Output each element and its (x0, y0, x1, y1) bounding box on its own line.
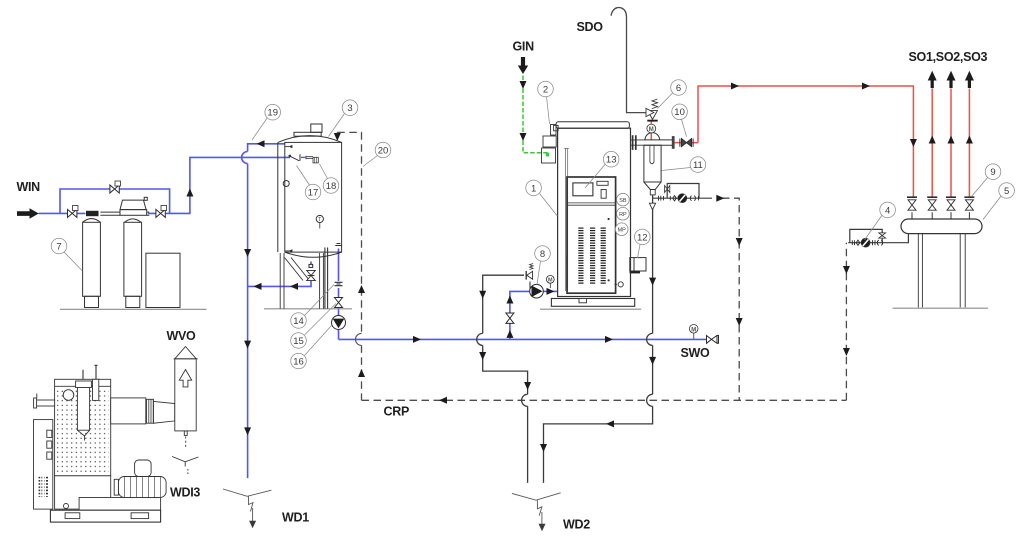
wire tank blowoff drain blue (248, 262, 311, 287)
wire tank overflow to WD1 blue (242, 144, 285, 478)
arrow left tank overflow (257, 140, 265, 147)
skid base platform (79, 498, 161, 511)
steam trap manifold (861, 238, 870, 247)
feedwater tank internal inlet bracket (285, 145, 292, 148)
steam trap separator (678, 194, 687, 203)
boiler panel buttons (597, 181, 608, 198)
skid dosing filter column (76, 381, 92, 441)
boiler display (573, 183, 593, 196)
arrow right feed line 1 (413, 336, 421, 343)
wire pump suction branch blue (510, 291, 531, 339)
arrow up softener outlet riser (186, 189, 193, 197)
valve WIN line (68, 206, 79, 218)
svg-text:SB: SB (619, 198, 627, 204)
arrow left tank blowoff 1 (254, 283, 262, 290)
manifold legs (918, 234, 965, 308)
callout 3 feed tank (329, 100, 358, 137)
arrow up SO3 (966, 136, 973, 144)
callout 17 float switch (297, 166, 321, 200)
boiler louver vents (578, 228, 606, 286)
arrow right steam header 2 (862, 83, 870, 90)
callout 12 blowdown valve (635, 229, 651, 258)
arrow right separator trap outlet (716, 195, 724, 202)
separator drain open arrow (649, 203, 655, 210)
callout 15 outlet valve (291, 304, 336, 349)
callout 6 safety valve (658, 80, 687, 109)
callout 1 boiler (526, 180, 558, 216)
feedwater tank temperature gauge T (316, 215, 323, 228)
wire CRP return into tank dashed (337, 132, 361, 400)
arrow down CRP manifold riser 2 (843, 348, 850, 356)
skid drain port (64, 504, 69, 509)
ground line under manifold (893, 307, 988, 309)
wire manifold trap line black (848, 234, 908, 243)
arrow up pump branch 2 (506, 330, 513, 338)
skid perforated panel (55, 379, 111, 476)
boiler panel seam (567, 203, 616, 205)
callout 16 strainer (291, 326, 332, 369)
arrow right feed line 2 (605, 336, 613, 343)
skid pressure gauge (63, 390, 74, 401)
valve softener outlet (156, 206, 167, 218)
arrow bold GIN inlet (518, 57, 528, 74)
svg-text:5: 5 (1004, 186, 1009, 197)
water softener interconnecting pipe (100, 212, 120, 215)
boiler drain cock (615, 282, 624, 287)
svg-text:MP: MP (618, 227, 627, 233)
svg-text:1: 1 (531, 183, 536, 194)
svg-text:WD1: WD1 (282, 511, 309, 525)
wire CRP main horizontal dashed (362, 399, 847, 401)
steam separator item 11 (644, 133, 675, 195)
arrow down CRP sep trap riser 2 (736, 318, 743, 326)
union fitting item 14 (335, 282, 343, 285)
arrow right pump discharge (547, 288, 555, 295)
WD2 floor drain (512, 493, 561, 532)
svg-text:WDI3: WDI3 (170, 486, 200, 500)
blowdown valve item 12 (630, 258, 646, 274)
boiler top plate (556, 122, 629, 129)
boiler port label SB (617, 193, 630, 206)
svg-text:14: 14 (293, 316, 304, 327)
SDO vent pipe (611, 7, 646, 112)
water softener tank 2 (124, 219, 142, 308)
arrow bold SO1 (928, 71, 937, 88)
callout 10 steam valve (672, 104, 688, 137)
wire steam supply to manifold red (675, 86, 914, 198)
feedwater tank overflow standpipe (325, 248, 328, 309)
valve steam outlet item 10 (680, 139, 693, 147)
valve SWO outlet (707, 336, 719, 344)
svg-text:RP: RP (619, 212, 627, 218)
feedwater tank body (278, 136, 342, 258)
wire softener bypass blue (60, 189, 170, 213)
valve manifold outlet 3 (946, 197, 956, 210)
pump relief valve (526, 263, 533, 279)
gas train item 2 (542, 125, 557, 164)
WDI3 floor drain (172, 457, 198, 475)
wire manifold trap bypass black (850, 229, 882, 242)
callout 20 condensate return (363, 142, 391, 166)
callout 19 overflow (252, 104, 281, 140)
svg-text:9: 9 (990, 167, 995, 178)
wire relief valve stem black (529, 282, 531, 292)
svg-text:18: 18 (326, 181, 337, 192)
valve manifold outlet 2 (927, 197, 937, 210)
water softener brine tank (146, 253, 180, 307)
arrow up CRP left riser 1 (358, 285, 365, 293)
valve tank outlet item 15 (335, 298, 343, 308)
wire steam outlets SO1 SO2 SO3 red (932, 89, 969, 199)
svg-text:20: 20 (378, 145, 389, 156)
boiler panel screws (608, 218, 610, 282)
wire CRP from manifold trap dashed (845, 243, 847, 401)
svg-text:12: 12 (637, 232, 648, 243)
svg-text:10: 10 (674, 107, 685, 118)
arrow down separator drain 1 (649, 278, 656, 286)
wire separator drain to WD2 black (544, 195, 653, 483)
wire softener outlet to feed tank blue (148, 157, 290, 213)
callout 2 gas train (538, 81, 554, 124)
svg-text:M: M (548, 278, 553, 284)
svg-text:4: 4 (885, 205, 890, 216)
svg-text:WVO: WVO (167, 329, 197, 343)
ground line under boiler (540, 308, 641, 310)
svg-text:8: 8 (540, 249, 545, 260)
WVO exhaust stack (174, 347, 198, 449)
arrow down WD1 line 2 (244, 341, 251, 349)
boiler port label RP (617, 207, 630, 220)
valve manifold trap bypass (879, 233, 886, 238)
skid lower cabinet (55, 476, 111, 509)
ground line under feed tank (264, 308, 352, 310)
svg-text:CRP: CRP (384, 405, 410, 419)
arrow up CRP left riser 2 (358, 369, 365, 377)
valve separator trap bypass (665, 186, 670, 193)
wire steam takeoff red (650, 122, 652, 140)
skid side pipe arm (34, 394, 55, 409)
strainer item 16 (332, 316, 346, 330)
svg-text:SDO: SDO (577, 20, 604, 34)
feedwater tank outlet nub (335, 244, 341, 246)
svg-text:3: 3 (347, 103, 352, 114)
motor M SWO valve (689, 325, 698, 334)
wire GIN gas line green (523, 76, 549, 153)
boiler steam outlet flanges (633, 135, 636, 150)
boiler control panel (567, 177, 616, 293)
callout 11 separator (662, 157, 706, 173)
skid left control cabinet (34, 420, 53, 510)
arrow left tank blowoff 2 (290, 283, 298, 290)
feedwater tank lid and vent (294, 124, 322, 136)
WD1 floor drain (223, 489, 271, 528)
svg-text:M: M (649, 127, 654, 133)
valve tank blowoff with actuator (307, 264, 316, 280)
callout 13 control panel (585, 151, 619, 188)
wire separator trap bypass black (667, 184, 699, 199)
callout 4 manifold trap (865, 202, 896, 240)
wire pump relief to drain black (477, 275, 528, 483)
check valve pump suction (506, 313, 514, 323)
svg-text:T: T (318, 217, 321, 223)
arrow down WD1 line 3 (244, 427, 251, 435)
skid blower (114, 477, 166, 498)
boiler steam outlet pipe (631, 140, 645, 145)
svg-text:17: 17 (308, 187, 319, 198)
boiler lifting lug (554, 125, 559, 130)
svg-text:WD2: WD2 (563, 518, 590, 532)
arrow bold SO2 (947, 71, 956, 88)
skid exhaust duct (111, 398, 175, 424)
motor M pump (546, 275, 554, 288)
svg-text:6: 6 (676, 83, 681, 94)
manifold trap fittings (852, 240, 882, 245)
callout 7 softener (51, 238, 82, 270)
wire main feedwater line blue (339, 338, 707, 340)
svg-text:SO1,SO2,SO3: SO1,SO2,SO3 (909, 50, 988, 64)
ground line under softener (60, 308, 207, 310)
feedwater tank float valve assembly (289, 154, 319, 163)
svg-text:16: 16 (293, 356, 304, 367)
skid blower motor (135, 460, 152, 477)
manifold valve stubs (912, 212, 969, 219)
arrow down CRP manifold riser 1 (843, 266, 850, 274)
callout 14 union (291, 285, 334, 329)
arrow down WD2 leg (540, 444, 547, 452)
wire CRP vertical jump over feed line (356, 333, 362, 345)
wire tank outlet down blue (338, 249, 340, 340)
boiler body (558, 128, 631, 296)
valve manifold outlet 4 item 9 (964, 197, 974, 210)
feedwater tank legs and braces (280, 253, 323, 309)
svg-text:2: 2 (543, 84, 548, 95)
boiler base (551, 299, 634, 307)
wire WIN inlet blue (39, 212, 86, 214)
callout 18 float valve (320, 164, 339, 193)
arrow left CRP horizontal (439, 397, 447, 404)
boiler gauge glass (564, 149, 568, 292)
callout 5 manifold (983, 183, 1014, 220)
arrow bold SO3 (965, 71, 974, 88)
wire separator trap line black (653, 197, 712, 199)
arrow bold WIN inlet (17, 208, 39, 219)
feedwater tank bottom-left bracket (285, 249, 292, 252)
skid probe pins (83, 365, 98, 379)
arrow down manifold inlet (910, 139, 917, 147)
steam manifold item 5 (901, 219, 982, 234)
svg-text:SWO: SWO (681, 346, 711, 360)
arrow down CRP into tank (334, 133, 341, 141)
valve manifold outlet 1 (907, 197, 917, 210)
svg-text:15: 15 (293, 336, 304, 347)
arrow down relief drain 3 (524, 382, 531, 390)
svg-text:19: 19 (267, 108, 278, 119)
svg-text:GIN: GIN (513, 40, 535, 54)
arrow down GIN 1 (520, 81, 527, 89)
wire pump discharge blue (543, 290, 558, 292)
arrow down relief drain 2 (479, 352, 486, 360)
svg-text:7: 7 (56, 241, 61, 252)
arrow down GIN 2 (520, 133, 527, 141)
arrow down separator drain 2 (649, 357, 656, 365)
arrow left blowdown to WD2 (606, 420, 614, 427)
valve softener bypass (110, 181, 121, 193)
callout 9 manifold valves (972, 164, 1001, 197)
water softener tank 1 (83, 211, 101, 308)
arrow down WD1 line 1 (244, 249, 251, 257)
wire SWO motor valve stem (693, 333, 695, 339)
svg-text:13: 13 (606, 155, 617, 166)
separator trap fittings (659, 196, 699, 201)
arrow up pump branch 1 (506, 296, 513, 304)
boiler port label MP (615, 223, 628, 236)
svg-text:M: M (691, 327, 696, 333)
arrow down relief drain 1 (479, 291, 486, 299)
arrow up SO2 (948, 136, 955, 144)
water softener control valve head (120, 197, 149, 215)
skid bottom frame (50, 510, 160, 522)
skid small cylinder (93, 379, 99, 400)
feed pump item 8 (530, 284, 544, 298)
svg-text:WIN: WIN (17, 180, 41, 194)
callout 8 feed pump (535, 246, 551, 285)
arrow up SO1 (929, 136, 936, 144)
arrow down CRP sep trap riser 1 (736, 238, 743, 246)
motor M safety valve (647, 124, 656, 133)
safety valve item 6 (646, 99, 658, 122)
svg-text:11: 11 (693, 160, 703, 171)
arrow right steam header 1 (731, 83, 739, 90)
wire CRP from separator trap dashed (722, 198, 739, 400)
feedwater tank side fitting (283, 181, 289, 187)
